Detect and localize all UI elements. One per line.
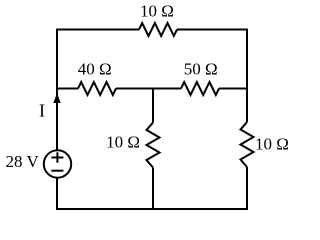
svg-text:10 Ω: 10 Ω <box>140 1 174 20</box>
wire middle-center segment <box>116 88 181 90</box>
resistor 10 ohm top zigzag <box>139 23 177 36</box>
resistor 50 ohm zigzag <box>181 82 219 95</box>
wire right upper segment <box>246 29 248 123</box>
wire middle-left segment <box>56 88 78 90</box>
wire bottom <box>56 208 248 210</box>
voltage source plus sign <box>51 152 63 163</box>
svg-text:10 Ω: 10 Ω <box>255 135 289 154</box>
svg-text:I: I <box>39 100 45 120</box>
current arrow I <box>53 93 60 103</box>
resistor 10 ohm middle zigzag <box>147 123 160 168</box>
svg-text:10 Ω: 10 Ω <box>106 133 140 152</box>
svg-text:28 V: 28 V <box>6 152 40 171</box>
wire left lower segment <box>56 178 58 210</box>
resistor 10 ohm right zigzag <box>241 122 254 167</box>
wire left upper segment <box>56 29 58 150</box>
wire middle-right segment <box>219 88 248 90</box>
wire middle vertical lower <box>152 168 154 211</box>
wire right lower segment <box>246 167 248 210</box>
voltage source 28 V circle <box>44 150 71 177</box>
resistor 40 ohm zigzag <box>78 82 116 95</box>
wire top-right segment <box>177 29 247 31</box>
wire middle vertical upper <box>152 89 154 123</box>
svg-text:50 Ω: 50 Ω <box>184 60 218 79</box>
voltage source minus sign <box>51 170 63 172</box>
svg-text:40 Ω: 40 Ω <box>78 60 112 79</box>
wire top-left segment <box>57 29 139 31</box>
